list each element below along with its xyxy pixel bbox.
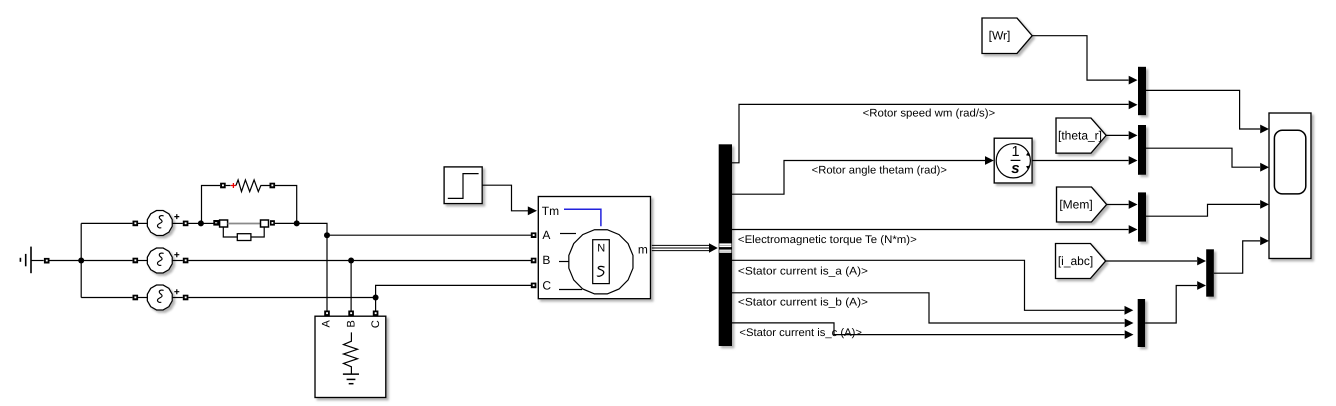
wire mux1 to scope — [1146, 90, 1260, 129]
bus arrow — [709, 243, 718, 252]
goto tag [Mem] — [1057, 187, 1107, 222]
machine B port — [531, 258, 537, 264]
svg-text:C: C — [370, 320, 382, 328]
wire phase B to machine — [188, 260, 531, 262]
machine stator lead C — [559, 289, 582, 291]
wire mux5 to mux4 — [1145, 286, 1197, 324]
svg-text:<Stator current is_c (A)>: <Stator current is_c (A)> — [739, 327, 862, 339]
wire torque — [732, 229, 1129, 231]
wire integrator to mux2 — [1032, 160, 1128, 162]
arrow into mux5 in3 — [1125, 330, 1134, 339]
machine C port — [531, 283, 537, 289]
wire ground to node — [49, 260, 81, 262]
wire B down to load — [350, 261, 352, 311]
arrow into mux5 in1 — [1125, 306, 1134, 315]
wire is_b — [732, 293, 1125, 323]
AC source V2 — [133, 248, 189, 273]
wire rotor speed — [732, 104, 1129, 162]
ground port — [44, 258, 50, 264]
svg-text:[theta_r]: [theta_r] — [1058, 128, 1102, 142]
svg-text:m: m — [638, 242, 648, 256]
machine block PMSM — [538, 197, 650, 299]
arrow into scope in2 — [1260, 163, 1269, 172]
svg-text:<Stator current is_a (A)>: <Stator current is_a (A)> — [738, 265, 868, 277]
wire phase A to machine and load — [297, 223, 327, 311]
node N6 — [373, 295, 379, 301]
wire rotor angle — [732, 161, 985, 195]
arrow into mux2 in1 — [1129, 131, 1138, 140]
svg-text:C: C — [542, 279, 551, 293]
machine stator lead B — [559, 261, 569, 263]
arrow into mux4 in1 — [1197, 257, 1206, 266]
arrow into mux1 in1 — [1129, 76, 1138, 85]
wire mux2 to scope — [1146, 148, 1260, 167]
wire mux3 to scope — [1146, 204, 1260, 216]
machine A port — [531, 232, 537, 238]
arrow into mux3 (in2) — [1129, 225, 1138, 234]
integrator block 1/s — [994, 138, 1032, 183]
node N3 — [294, 220, 300, 226]
arrow into scope in3 — [1260, 200, 1269, 209]
parallel RLC branch Z1 — [213, 220, 275, 241]
wire node to parallel branch — [201, 222, 214, 224]
step block — [444, 167, 482, 204]
wire is_a — [732, 260, 1124, 310]
node N1 — [78, 258, 84, 264]
mux M1 — [1138, 67, 1146, 115]
wire phase C — [188, 297, 375, 299]
arrow into scope in4 — [1260, 237, 1269, 246]
svg-text:A: A — [542, 228, 550, 242]
svg-text:<Stator current is_b (A)>: <Stator current is_b (A)> — [738, 296, 868, 308]
node N2 — [198, 220, 204, 226]
svg-text:1: 1 — [1012, 144, 1020, 160]
arrow into scope in1 — [1260, 125, 1269, 134]
svg-text:<Rotor speed wm (rad/s)>: <Rotor speed wm (rad/s)> — [863, 107, 996, 119]
svg-text:Tm: Tm — [542, 204, 559, 218]
wire A to machine — [327, 234, 531, 236]
mux M5 — [1138, 299, 1145, 347]
wire parallel branch to node — [275, 222, 297, 224]
node N4 — [324, 232, 330, 238]
machine magnet rect — [593, 240, 610, 284]
ground G1 — [20, 247, 43, 274]
wire is_c — [732, 323, 1125, 335]
arrow into Tm — [528, 206, 537, 215]
wire vertical bus — [80, 223, 82, 297]
machine stator lead A — [560, 233, 576, 235]
mux M2 — [1138, 125, 1146, 175]
machine blue Tm wire — [564, 209, 601, 226]
wire up to series branch — [201, 186, 220, 224]
series RLC branch R1 (resistor) — [220, 180, 275, 192]
bus selector — [719, 144, 732, 346]
wire mux4 to scope — [1214, 241, 1260, 273]
wire to V3 — [81, 297, 132, 299]
load icon resistor to ground — [343, 332, 359, 383]
magnet S glyph — [597, 266, 604, 276]
wire series branch to node — [275, 186, 297, 224]
arrow rotor speed into mux1 — [1129, 100, 1138, 109]
svg-text:s: s — [1011, 160, 1019, 177]
mux M4 — [1206, 249, 1214, 296]
arrow into mux2 (in2) — [1129, 156, 1138, 165]
AC source V3 — [133, 285, 189, 310]
wire i_abc to mux4 — [1106, 260, 1197, 262]
wire Mem to mux3 — [1107, 204, 1129, 206]
wire to V2 — [81, 260, 132, 262]
wire step to Tm — [482, 185, 528, 211]
output bus m (triple line) — [652, 245, 711, 250]
wire to V1 — [81, 222, 132, 224]
arrow into mux3 in1 — [1129, 200, 1138, 209]
goto tag [Wr] — [982, 18, 1032, 54]
svg-text:[Mem]: [Mem] — [1059, 198, 1092, 212]
goto tag [i_abc] — [1056, 244, 1106, 279]
three-phase load block — [315, 311, 386, 398]
wire Wr to mux1 — [1032, 36, 1128, 80]
arrow into mux4 in2 — [1197, 281, 1206, 290]
svg-text:A: A — [321, 320, 333, 328]
scope block — [1269, 113, 1311, 259]
mux M3 — [1138, 192, 1146, 241]
node N5 — [348, 258, 354, 264]
wire C to machine — [376, 285, 531, 311]
arrow into integrator — [985, 156, 994, 165]
AC source V1 — [133, 211, 189, 236]
svg-text:B: B — [345, 320, 357, 327]
svg-text:N: N — [597, 242, 605, 254]
svg-text:[i_abc]: [i_abc] — [1058, 254, 1093, 268]
svg-text:<Electromagnetic torque Te (N*: <Electromagnetic torque Te (N*m)> — [738, 234, 917, 246]
goto tag [theta_r] — [1056, 118, 1106, 153]
wire theta_r to mux2 — [1106, 134, 1128, 136]
svg-text:B: B — [542, 253, 550, 267]
svg-text:<Rotor angle thetam (rad)>: <Rotor angle thetam (rad)> — [812, 164, 947, 176]
machine rotor circle — [569, 230, 633, 294]
svg-text:[Wr]: [Wr] — [989, 29, 1011, 43]
arrow into mux5 in2 — [1125, 319, 1134, 328]
wire V1 out to node — [188, 222, 201, 224]
